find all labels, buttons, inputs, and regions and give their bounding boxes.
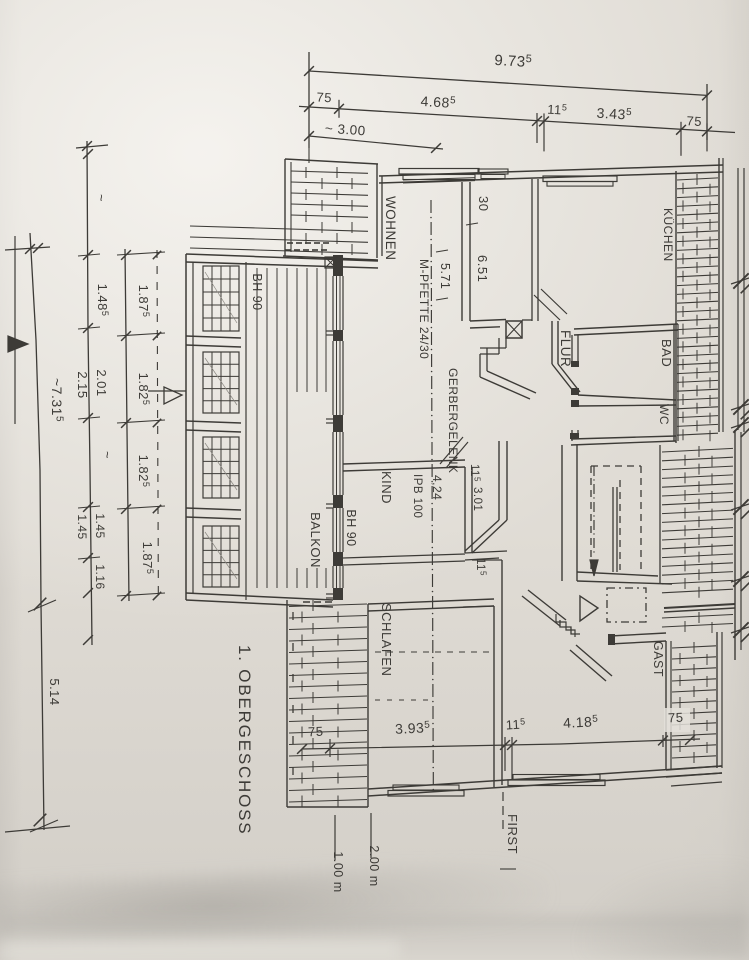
svg-text:75: 75 [308, 724, 324, 740]
svg-text:1.825: 1.825 [136, 373, 151, 406]
svg-text:1.45: 1.45 [75, 514, 89, 539]
svg-text:FIRST: FIRST [505, 814, 520, 854]
svg-text:4.185: 4.185 [563, 713, 599, 731]
svg-text:2.15: 2.15 [75, 371, 90, 398]
svg-text:1.875: 1.875 [140, 542, 155, 575]
svg-text:75: 75 [686, 113, 702, 129]
svg-text:~7.315: ~7.315 [49, 378, 65, 422]
svg-text:5.71: 5.71 [438, 263, 452, 289]
svg-text:BAD: BAD [659, 339, 674, 367]
svg-text:1.00 m: 1.00 m [331, 851, 345, 892]
svg-text:4,24: 4,24 [430, 475, 444, 500]
svg-text:KIND: KIND [379, 471, 394, 504]
svg-text:~ 3.00: ~ 3.00 [324, 121, 366, 139]
svg-text:2.01: 2.01 [94, 369, 109, 396]
svg-text:5.14: 5.14 [47, 678, 62, 705]
svg-text:BH 90: BH 90 [344, 509, 358, 546]
svg-text:115: 115 [468, 464, 482, 482]
svg-text:1.825: 1.825 [136, 455, 151, 488]
svg-text:1.875: 1.875 [136, 285, 151, 318]
svg-text:1.45: 1.45 [93, 513, 107, 538]
svg-text:GAST: GAST [651, 641, 665, 677]
svg-text:1.16: 1.16 [93, 564, 107, 589]
svg-text:M-PFETTE 24/30: M-PFETTE 24/30 [417, 259, 431, 359]
svg-text:2.00 m: 2.00 m [367, 845, 381, 886]
svg-text:115: 115 [474, 558, 488, 576]
svg-text:~: ~ [94, 194, 109, 202]
svg-text:75: 75 [316, 89, 332, 105]
svg-text:WOHNEN: WOHNEN [383, 196, 398, 261]
svg-text:3.01: 3.01 [471, 487, 483, 511]
svg-text:WC: WC [657, 404, 671, 425]
svg-text:115: 115 [505, 716, 526, 732]
svg-text:3.435: 3.435 [596, 105, 632, 123]
svg-text:75: 75 [668, 710, 684, 726]
svg-text:4.685: 4.685 [420, 93, 456, 111]
svg-text:6.51: 6.51 [475, 255, 490, 282]
svg-text:BALKON: BALKON [308, 512, 323, 568]
svg-text:1. OBERGESCHOSS: 1. OBERGESCHOSS [235, 645, 254, 835]
svg-text:30: 30 [476, 196, 491, 211]
svg-text:SCHLAFEN: SCHLAFEN [379, 603, 394, 676]
svg-text:~: ~ [100, 451, 115, 459]
svg-text:115: 115 [547, 101, 568, 117]
svg-text:9.735: 9.735 [494, 51, 533, 71]
svg-text:BH 90: BH 90 [250, 273, 264, 310]
svg-text:3.935: 3.935 [395, 719, 431, 737]
svg-text:FLUR: FLUR [558, 330, 573, 367]
svg-text:IPB 100: IPB 100 [411, 474, 423, 518]
svg-text:1.485: 1.485 [95, 284, 110, 317]
svg-text:KÜCHEN: KÜCHEN [661, 208, 675, 262]
svg-text:GERBERGELENK: GERBERGELENK [446, 368, 460, 473]
